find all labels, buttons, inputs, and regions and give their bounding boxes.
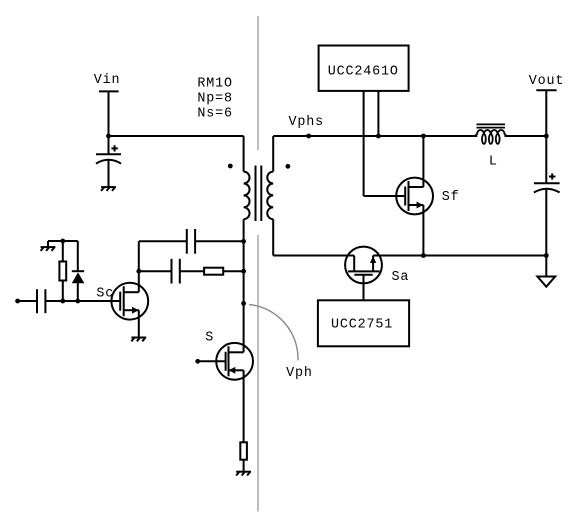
isolation boundary line (gray)	[257, 16, 259, 512]
svg-text:UCC2751: UCC2751	[331, 317, 393, 332]
wire Vphs rail (secondary top)	[273, 135, 546, 137]
svg-text:Ns=6: Ns=6	[197, 106, 233, 121]
diode gate clamp	[72, 241, 85, 301]
svg-text:Vphs: Vphs	[289, 115, 325, 130]
wire S source down	[243, 370, 245, 442]
node gate-drive input terminal	[15, 299, 20, 304]
junction Sf source / Sa	[421, 253, 426, 258]
wire U1 right pin to Vphs rail	[377, 91, 379, 136]
wire top-left node	[48, 241, 78, 247]
capacitor clamp (upper)	[139, 229, 244, 254]
IC U2 UCC2751	[318, 300, 409, 346]
wire U1 left pin to Sf gate	[364, 91, 406, 196]
wire Sa gate to U2	[363, 275, 365, 301]
svg-text:S: S	[205, 331, 214, 346]
ground (source resistor)	[236, 472, 251, 476]
inductor L core bars	[477, 124, 506, 127]
wire Sc drain up	[138, 241, 140, 292]
transistor S	[216, 343, 253, 380]
wire S gate	[198, 360, 226, 362]
resistor gate pull (vertical)	[59, 241, 66, 301]
capacitor damping (lower)	[139, 259, 204, 284]
transformer T1 primary winding	[244, 136, 250, 352]
resistor damping (horizontal)	[204, 268, 244, 275]
capacitor Cout (polarized)	[534, 136, 560, 256]
svg-text:Sc: Sc	[96, 286, 114, 301]
wire Sc source down	[138, 310, 140, 337]
capacitor Cin (polarized)	[96, 136, 121, 187]
node S gate terminal	[195, 359, 200, 364]
ground (Vin cap)	[101, 187, 116, 191]
svg-text:Vph: Vph	[286, 366, 313, 381]
svg-text:UCC2461O: UCC2461O	[328, 64, 399, 79]
transistor Sa	[345, 247, 382, 284]
junction Cout bottom	[544, 253, 549, 258]
label RM10 Np=8 Ns=6	[197, 77, 233, 122]
junction gate rail / diode	[75, 299, 80, 304]
transistor Sc	[111, 283, 148, 320]
junction Vout node	[544, 134, 549, 139]
junction top-left node	[60, 239, 65, 244]
svg-text:Vout: Vout	[529, 74, 565, 89]
node Vph	[241, 301, 246, 306]
ground (top-left)	[41, 247, 56, 251]
wire Sf source down	[422, 205, 424, 256]
svg-text:RM1O: RM1O	[197, 77, 233, 92]
junction Sc drain branch	[136, 269, 141, 274]
junction primary / damping resistor	[241, 269, 246, 274]
transformer T1 core	[256, 166, 262, 222]
svg-text:L: L	[489, 155, 498, 170]
node Vout terminal	[536, 90, 556, 136]
junction primary / clamp cap	[241, 239, 246, 244]
svg-text:Sa: Sa	[392, 270, 410, 285]
transistor Sf	[396, 178, 433, 215]
svg-text:Np=8: Np=8	[197, 92, 233, 107]
transformer T1 secondary winding	[267, 136, 273, 256]
ground (Sc source)	[131, 338, 146, 342]
svg-text:Sf: Sf	[442, 190, 460, 205]
node Vin terminal	[99, 91, 119, 136]
Vph pointer arc (gray)	[249, 305, 298, 361]
wire Vin node to transformer primary top	[109, 135, 244, 137]
junction Sf drain	[421, 134, 426, 139]
inductor L winding	[474, 130, 507, 144]
junction Vin node	[106, 134, 111, 139]
ground (output, triangle)	[537, 256, 555, 287]
junction U1 right pin	[376, 134, 381, 139]
wire secondary bottom rail	[273, 255, 546, 257]
svg-text:Vin: Vin	[94, 73, 121, 88]
junction gate rail / resistor	[60, 299, 65, 304]
wire Sf drain up to rail	[422, 136, 424, 187]
node Vphs	[306, 134, 311, 139]
transformer T1 phase dots	[228, 164, 233, 169]
IC U1 UCC24610	[319, 46, 409, 91]
capacitor gate input	[18, 289, 121, 313]
resistor source sense (vertical)	[240, 442, 247, 471]
